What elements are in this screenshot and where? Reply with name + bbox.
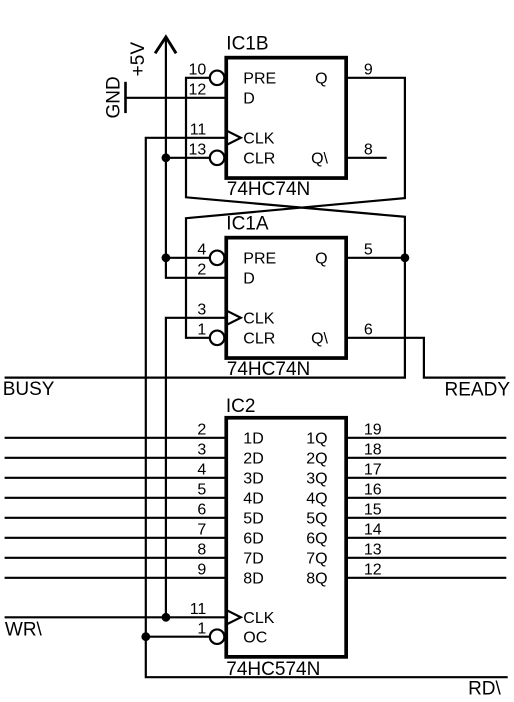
svg-text:12: 12 — [364, 561, 382, 578]
svg-text:Q\: Q\ — [311, 151, 328, 168]
wire IC1B Q pin 9 down and across to IC1A CLR pin 1 — [186, 78, 405, 338]
svg-text:2Q: 2Q — [306, 451, 327, 468]
svg-text:6: 6 — [197, 501, 206, 518]
junction Q5 / PRE10 / BUSY node — [401, 253, 410, 262]
ground symbol GND bar — [124, 82, 127, 113]
flip-flop IC1B box — [226, 58, 346, 178]
wire output 2Q from IC2 pin 18 — [346, 457, 506, 459]
IC1B PRE bubble pin 10 — [210, 71, 225, 86]
svg-text:3D: 3D — [243, 471, 263, 488]
wire output 7Q from IC2 pin 13 — [346, 557, 506, 559]
wire GND to IC1B D pin 12 — [126, 97, 227, 99]
wire IC1B Q\ pin 8 stub — [346, 157, 387, 159]
svg-text:16: 16 — [364, 481, 382, 498]
svg-text:READY: READY — [445, 379, 511, 400]
wire data bit 7 to IC2 pin 8 (7D) — [5, 557, 226, 559]
junction RD / OC node — [141, 632, 150, 641]
wire IC1A CLK pin 3 up from WR junction — [166, 318, 226, 618]
wire data bit 2 to IC2 pin 3 (2D) — [5, 457, 226, 459]
svg-text:WR\: WR\ — [5, 619, 43, 640]
svg-text:IC1A: IC1A — [226, 213, 269, 234]
svg-text:19: 19 — [364, 421, 382, 438]
svg-text:8: 8 — [364, 141, 373, 158]
wire IC1B PRE pin 10 down and across to Q pin 5 of IC1A — [186, 78, 405, 258]
IC1B CLR bubble pin 13 — [210, 151, 225, 166]
svg-text:1Q: 1Q — [306, 431, 327, 448]
svg-text:14: 14 — [364, 521, 382, 538]
svg-text:11: 11 — [190, 601, 207, 618]
svg-text:+5V: +5V — [128, 42, 149, 77]
wire output 8Q from IC2 pin 12 — [346, 577, 506, 579]
wire RD\ net: IC1B CLK pin 11 left, down, along bottom to right edge — [146, 138, 508, 677]
svg-text:6Q: 6Q — [306, 531, 327, 548]
svg-text:Q\: Q\ — [311, 331, 328, 348]
IC1A CLK wedge — [227, 311, 241, 325]
svg-text:13: 13 — [189, 141, 207, 158]
wire data bit 3 to IC2 pin 4 (3D) — [5, 477, 226, 479]
wire IC2 OC pin 1 from RD junction — [146, 636, 210, 638]
svg-text:3: 3 — [197, 301, 206, 318]
wire BUSY up to Q5 junction — [5, 258, 405, 378]
junction on +5V at IC1B CLR — [162, 153, 171, 162]
IC1A PRE bubble pin 4 — [210, 251, 225, 266]
svg-text:CLK: CLK — [243, 311, 274, 328]
svg-text:6: 6 — [364, 321, 373, 338]
svg-text:7Q: 7Q — [306, 551, 327, 568]
wire IC1A PRE pin 4 from +5V junction — [166, 257, 210, 259]
svg-text:PRE: PRE — [243, 71, 276, 88]
svg-text:CLR: CLR — [243, 331, 275, 348]
svg-text:BUSY: BUSY — [3, 379, 55, 400]
svg-text:5: 5 — [197, 481, 206, 498]
svg-text:4: 4 — [197, 461, 206, 478]
svg-text:2D: 2D — [243, 451, 263, 468]
svg-text:4D: 4D — [243, 491, 263, 508]
svg-text:9: 9 — [364, 61, 373, 78]
svg-text:74HC74N: 74HC74N — [227, 359, 310, 380]
svg-text:8Q: 8Q — [306, 571, 327, 588]
svg-text:2: 2 — [197, 421, 206, 438]
junction on +5V at IC1A PRE — [162, 253, 171, 262]
IC2 OC bubble pin 1 — [210, 629, 225, 644]
svg-text:IC1B: IC1B — [226, 33, 268, 54]
svg-text:3: 3 — [197, 441, 206, 458]
wire output 4Q from IC2 pin 16 — [346, 497, 506, 499]
wire data bit 6 to IC2 pin 7 (6D) — [5, 537, 226, 539]
svg-text:D: D — [243, 91, 255, 108]
svg-text:CLK: CLK — [243, 131, 274, 148]
wire data bit 5 to IC2 pin 6 (5D) — [5, 517, 226, 519]
svg-text:7: 7 — [197, 521, 206, 538]
wire output 5Q from IC2 pin 15 — [346, 517, 506, 519]
wire output 6Q from IC2 pin 14 — [346, 537, 506, 539]
svg-text:4: 4 — [197, 241, 206, 258]
svg-text:74HC74N: 74HC74N — [227, 179, 310, 200]
latch IC2 box — [226, 418, 346, 657]
power symbol +5V arrow — [155, 37, 176, 53]
svg-text:18: 18 — [364, 441, 382, 458]
wire IC1B CLR pin 13 from +5V junction — [166, 157, 210, 159]
svg-text:13: 13 — [364, 541, 382, 558]
svg-text:6D: 6D — [243, 531, 263, 548]
svg-text:9: 9 — [197, 561, 206, 578]
svg-text:PRE: PRE — [243, 251, 276, 268]
wire output 1Q from IC2 pin 19 — [346, 437, 506, 439]
svg-text:12: 12 — [189, 81, 207, 98]
wire WR\ to IC2 CLK pin 11 — [5, 616, 226, 618]
IC1B CLK wedge — [227, 131, 241, 145]
junction WR / CLK3 node — [162, 613, 171, 622]
svg-text:Q: Q — [315, 71, 327, 88]
svg-text:5Q: 5Q — [306, 511, 327, 528]
svg-text:10: 10 — [189, 61, 207, 78]
svg-text:D: D — [243, 271, 255, 288]
IC2 CLK wedge — [227, 610, 241, 624]
svg-text:15: 15 — [364, 501, 382, 518]
wire IC1A Q pin 5 to junction — [346, 257, 405, 259]
wire IC1A Q\ pin 6 down to READY — [346, 338, 506, 378]
flip-flop IC1A box — [226, 238, 346, 358]
svg-text:4Q: 4Q — [306, 491, 327, 508]
wire +5V net: arrow down to IC1A D pin 2, dots feed CLR13 and PRE4 — [166, 38, 226, 278]
svg-text:11: 11 — [190, 121, 207, 138]
svg-text:5D: 5D — [243, 511, 263, 528]
svg-text:8D: 8D — [243, 571, 263, 588]
svg-text:Q: Q — [315, 251, 327, 268]
svg-text:CLR: CLR — [243, 151, 275, 168]
svg-text:2: 2 — [197, 261, 206, 278]
svg-text:8: 8 — [197, 541, 206, 558]
svg-text:7D: 7D — [243, 551, 263, 568]
svg-text:17: 17 — [364, 461, 382, 478]
svg-text:GND: GND — [103, 76, 124, 118]
svg-text:74HC574N: 74HC574N — [226, 659, 320, 680]
svg-text:1D: 1D — [243, 431, 263, 448]
wire output 3Q from IC2 pin 17 — [346, 477, 506, 479]
svg-text:RD\: RD\ — [468, 679, 501, 700]
svg-text:1: 1 — [197, 620, 206, 637]
svg-text:5: 5 — [364, 241, 373, 258]
IC1A CLR bubble pin 1 — [210, 331, 225, 346]
svg-text:3Q: 3Q — [306, 471, 327, 488]
wire data bit 4 to IC2 pin 5 (4D) — [5, 497, 226, 499]
wire data bit 1 to IC2 pin 2 (1D) — [5, 437, 226, 439]
svg-text:OC: OC — [243, 630, 267, 647]
svg-text:CLK: CLK — [243, 610, 274, 627]
svg-text:1: 1 — [197, 321, 206, 338]
svg-text:IC2: IC2 — [226, 396, 256, 417]
wire data bit 8 to IC2 pin 9 (8D) — [5, 577, 226, 579]
